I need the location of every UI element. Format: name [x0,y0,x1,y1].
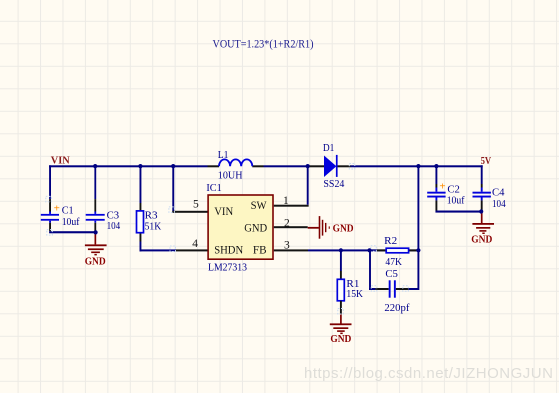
wire C2 branch vertical [435,166,437,210]
wire rail between L1 and D1 [252,165,324,167]
node marker at R2 left lead [371,246,377,252]
junction node FB at R1 [339,248,343,252]
svg-text:2: 2 [284,218,290,230]
svg-text:SHDN: SHDN [214,243,243,257]
junction node on rail at SW [306,164,310,168]
capacitor C4 [473,186,507,210]
pin 5 VIN [172,199,207,213]
svg-text:10uf: 10uf [447,195,465,207]
wire SW pin to rail [307,166,309,204]
capacitor C1 [41,203,80,228]
wire VIN pin vertical [172,166,174,212]
junction node on rail at C3 [93,164,97,168]
IC U1 LM27313 body [206,182,273,274]
svg-text:51K: 51K [145,220,162,232]
svg-text:SW: SW [251,198,268,212]
svg-text:C2: C2 [447,184,460,196]
svg-text:5V: 5V [481,156,492,167]
svg-text:4: 4 [192,238,198,250]
ground below R1 [330,315,352,346]
svg-text:SS24: SS24 [323,178,344,190]
svg-text:L1: L1 [218,149,229,161]
svg-text:GND: GND [85,257,106,268]
wire FB net horizontal [308,249,418,251]
svg-text:IC1: IC1 [206,182,221,194]
node marker at C1 bottom corner [47,230,53,236]
node marker at C5 left lead [371,286,377,292]
svg-text:GND: GND [471,235,492,246]
svg-text:C1: C1 [62,204,74,216]
svg-text:GND: GND [330,334,351,345]
capacitor C5 with branch wires [369,250,418,314]
node marker at pin 4 wire [170,246,176,252]
pin 3 FB [274,239,308,251]
pin 2 GND [274,218,308,230]
wire rail D1 to 5V corner [337,165,483,167]
svg-text:R2: R2 [384,235,397,247]
capacitor C3 [86,210,121,233]
junction node on rail at output vertical [416,164,420,168]
pin 1 SW [274,195,309,207]
ground below C4 [471,213,494,246]
junction node FB at C5 [367,248,371,252]
junction node FB at output vertical [416,248,420,252]
svg-text:15K: 15K [346,288,363,300]
svg-text:LM27313: LM27313 [208,262,247,274]
svg-text:3: 3 [284,239,290,251]
node marker at pin 5 wire [169,207,175,213]
watermark [304,365,553,382]
ground below C3 [85,233,107,267]
node marker at C1 top pin [46,196,52,202]
wire C1 branch vertical [49,165,51,231]
wire C4 branch vertical [481,165,483,210]
ground at pin 2 [308,216,354,239]
capacitor C2 [427,180,465,206]
resistor R1 [337,251,363,314]
junction node on rail at VIN pin [171,164,175,168]
junction node C1-C3 bottom [94,230,98,234]
wire output vertical (rail to FB to C5) [417,166,419,290]
svg-text:C5: C5 [385,268,398,280]
svg-text:104: 104 [492,198,506,210]
svg-text:D1: D1 [323,142,335,154]
svg-text:VIN: VIN [214,204,233,218]
svg-text:FB: FB [253,242,267,256]
pin 4 SHDN [176,238,208,252]
junction node on rail at R3 [138,164,142,168]
wire R3 to SHDN pin [140,242,177,252]
svg-text:GND: GND [244,220,267,234]
wire C2 to C4 bottom [435,211,482,213]
svg-text:104: 104 [107,220,121,232]
svg-text:GND: GND [333,223,354,234]
svg-text:47K: 47K [385,256,402,268]
node marker at C5 right lead [403,286,409,292]
svg-text:VOUT=1.23*(1+R2/R1): VOUT=1.23*(1+R2/R1) [213,36,314,50]
svg-text:5: 5 [193,199,199,211]
wire C3 branch vertical [94,166,96,231]
resistor R3 [137,166,162,241]
wire C1 to C3 bottom [49,231,96,233]
junction node on rail at C2 [434,164,438,168]
wire VIN rail left segment [49,165,219,167]
svg-text:10uf: 10uf [62,216,80,228]
svg-text:10UH: 10UH [218,169,243,181]
svg-text:1: 1 [283,195,289,207]
diode D1 [323,142,345,190]
node marker at R1 bottom lead [338,309,344,315]
svg-text:+: + [54,203,60,215]
svg-text:220pf: 220pf [384,302,409,314]
svg-text:VIN: VIN [51,156,70,167]
svg-text:+: + [439,180,445,192]
node marker at D1 cathode wire [349,164,355,170]
inductor L1 [218,149,253,181]
junction node C2-C4 bottom [479,209,483,213]
resistor R2 [369,235,417,268]
svg-text:C4: C4 [492,186,505,198]
